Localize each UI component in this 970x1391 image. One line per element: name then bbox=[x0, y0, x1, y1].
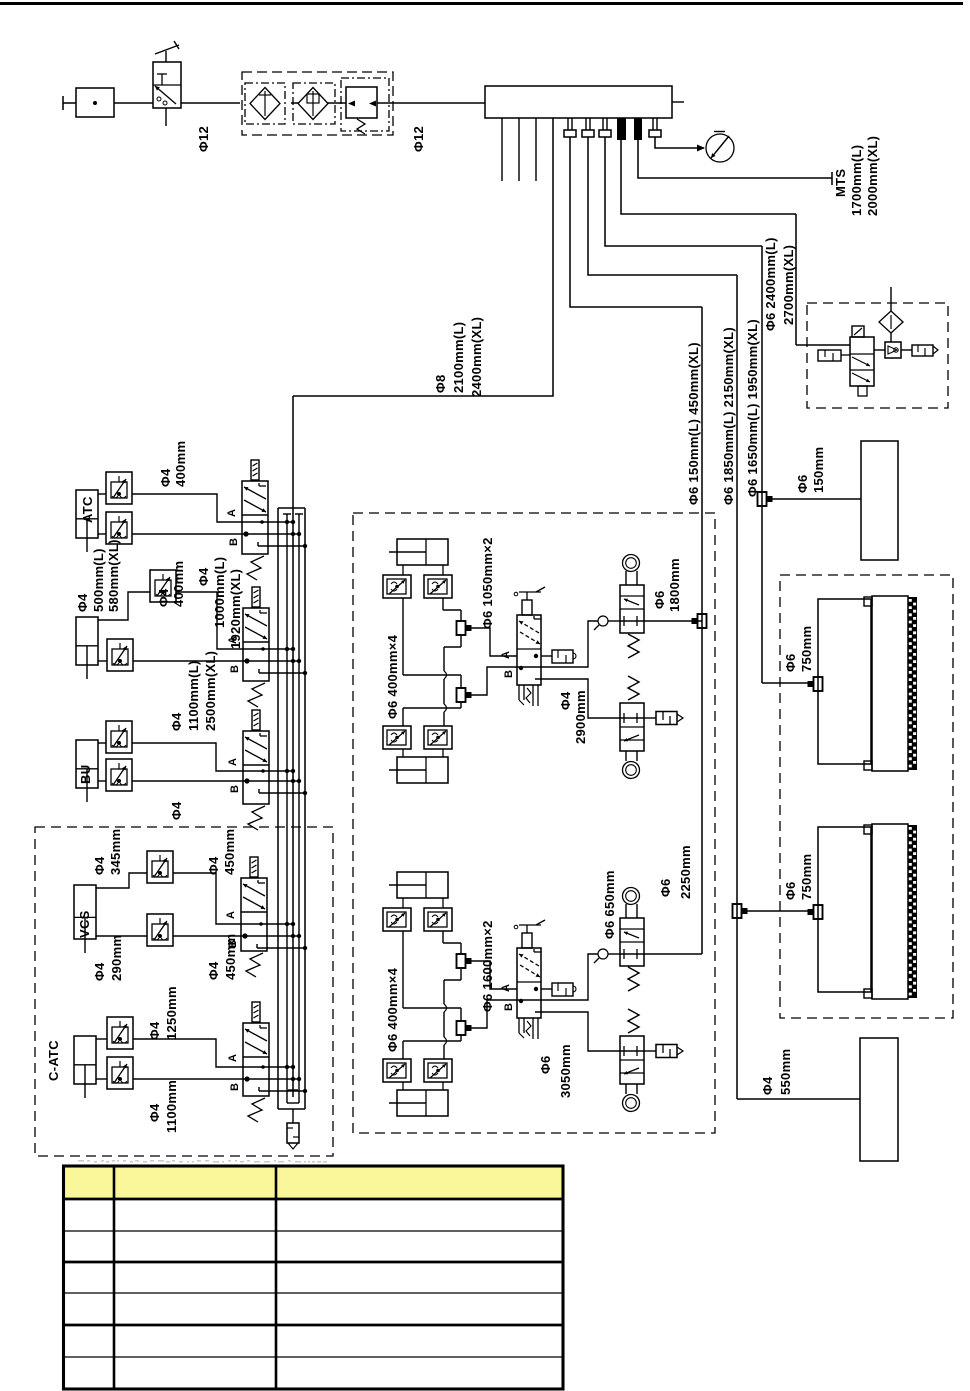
svg-text:Φ4: Φ4 bbox=[558, 691, 573, 710]
svg-text:B: B bbox=[503, 1003, 515, 1011]
svg-text:Φ4: Φ4 bbox=[92, 856, 107, 875]
svg-text:450mm: 450mm bbox=[222, 829, 237, 875]
svg-text:Φ4: Φ4 bbox=[147, 1103, 162, 1122]
svg-text:Φ6: Φ6 bbox=[783, 881, 798, 900]
svg-text:1920mm(XL): 1920mm(XL) bbox=[228, 569, 243, 649]
svg-text:450mm: 450mm bbox=[223, 934, 238, 980]
svg-text:345mm: 345mm bbox=[108, 829, 123, 875]
svg-text:Φ6: Φ6 bbox=[783, 653, 798, 672]
svg-text:BU: BU bbox=[78, 765, 93, 784]
svg-text:400mm: 400mm bbox=[171, 561, 186, 607]
svg-text:A: A bbox=[226, 509, 238, 517]
svg-text:Φ6 1850mm(L) 2150mm(XL): Φ6 1850mm(L) 2150mm(XL) bbox=[721, 327, 736, 505]
svg-text:2900mm: 2900mm bbox=[573, 690, 588, 744]
svg-text:500mm(L): 500mm(L) bbox=[91, 548, 106, 612]
svg-text:A: A bbox=[227, 758, 239, 766]
svg-text:1800mm: 1800mm bbox=[667, 558, 682, 612]
svg-text:290mm: 290mm bbox=[109, 935, 124, 981]
svg-text:A: A bbox=[500, 651, 512, 659]
svg-text:Φ4: Φ4 bbox=[158, 468, 173, 487]
svg-text:B: B bbox=[229, 665, 241, 673]
svg-text:Φ6: Φ6 bbox=[795, 474, 810, 493]
svg-text:B: B bbox=[229, 785, 241, 793]
svg-text:Φ6: Φ6 bbox=[652, 590, 667, 609]
svg-text:C-ATC: C-ATC bbox=[46, 1040, 61, 1081]
svg-text:Φ4: Φ4 bbox=[760, 1076, 775, 1095]
svg-text:B: B bbox=[228, 538, 240, 546]
svg-text:Φ6: Φ6 bbox=[658, 878, 673, 897]
svg-text:2400mm(XL): 2400mm(XL) bbox=[469, 317, 484, 397]
svg-text:150mm: 150mm bbox=[811, 447, 826, 493]
svg-text:Φ4: Φ4 bbox=[147, 1021, 162, 1040]
svg-text:Φ6 150mm(L) 450mm(XL): Φ6 150mm(L) 450mm(XL) bbox=[686, 342, 701, 505]
svg-text:Φ12: Φ12 bbox=[411, 126, 426, 152]
svg-text:B: B bbox=[229, 1083, 241, 1091]
svg-text:Φ4: Φ4 bbox=[75, 593, 90, 612]
svg-text:Φ4: Φ4 bbox=[92, 962, 107, 981]
svg-text:1100mm(L): 1100mm(L) bbox=[186, 660, 201, 731]
svg-text:Φ6 1650mm(L) 1950mm(XL): Φ6 1650mm(L) 1950mm(XL) bbox=[745, 319, 760, 497]
svg-text:VCS: VCS bbox=[77, 910, 92, 938]
svg-text:Φ4: Φ4 bbox=[156, 588, 171, 607]
svg-text:Φ6: Φ6 bbox=[538, 1055, 553, 1074]
svg-text:A: A bbox=[227, 1054, 239, 1062]
svg-text:Φ8: Φ8 bbox=[433, 374, 448, 393]
svg-text:Φ6 2400mm(L): Φ6 2400mm(L) bbox=[763, 237, 778, 331]
svg-text:1700mm(L): 1700mm(L) bbox=[849, 145, 864, 216]
svg-text:Φ4: Φ4 bbox=[169, 801, 184, 820]
svg-text:MTS: MTS bbox=[833, 169, 848, 197]
svg-text:400mm: 400mm bbox=[173, 441, 188, 487]
svg-text:Φ6 1600mm×2: Φ6 1600mm×2 bbox=[480, 920, 495, 1012]
svg-text:Φ6 400mm×4: Φ6 400mm×4 bbox=[385, 967, 400, 1052]
svg-text:A: A bbox=[225, 911, 237, 919]
svg-text:Φ4: Φ4 bbox=[206, 856, 221, 875]
svg-text:ATC: ATC bbox=[80, 496, 95, 523]
svg-text:580mm(XL): 580mm(XL) bbox=[106, 539, 121, 612]
svg-text:550mm: 550mm bbox=[778, 1049, 793, 1095]
svg-text:3050mm: 3050mm bbox=[558, 1044, 573, 1098]
svg-text:B: B bbox=[503, 670, 515, 678]
svg-text:750mm: 750mm bbox=[799, 854, 814, 900]
svg-text:Φ12: Φ12 bbox=[196, 126, 211, 152]
svg-text:Φ4: Φ4 bbox=[169, 712, 184, 731]
svg-text:1250mm: 1250mm bbox=[164, 986, 179, 1040]
svg-text:2100mm(L): 2100mm(L) bbox=[451, 322, 466, 393]
svg-text:Φ4: Φ4 bbox=[196, 567, 211, 586]
svg-text:Φ4: Φ4 bbox=[206, 961, 221, 980]
svg-text:Φ6 400mm×4: Φ6 400mm×4 bbox=[385, 634, 400, 719]
svg-text:750mm: 750mm bbox=[799, 626, 814, 672]
svg-text:Φ6 650mm: Φ6 650mm bbox=[602, 870, 617, 939]
svg-text:A: A bbox=[500, 984, 512, 992]
svg-text:2700mm(XL): 2700mm(XL) bbox=[781, 245, 796, 325]
svg-text:Φ6 1050mm×2: Φ6 1050mm×2 bbox=[480, 537, 495, 629]
svg-text:2500mm(XL): 2500mm(XL) bbox=[203, 651, 218, 731]
svg-text:2250mm: 2250mm bbox=[678, 845, 693, 899]
svg-text:1100mm: 1100mm bbox=[164, 1080, 179, 1133]
svg-text:1000mm(L): 1000mm(L) bbox=[212, 557, 227, 628]
svg-text:2000mm(XL): 2000mm(XL) bbox=[865, 136, 880, 216]
